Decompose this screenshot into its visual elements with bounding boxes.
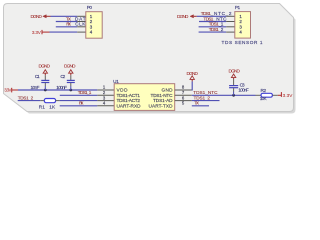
pin P0.1: [77, 15, 86, 17]
svg-text:100nF: 100nF: [238, 88, 249, 93]
connector P0: [86, 12, 102, 39]
wire R2 to 3.3V: [272, 94, 277, 96]
pin P1.1: [226, 15, 235, 17]
wire P0 pin1 to DGND: [51, 15, 78, 17]
svg-text:C1: C1: [35, 74, 40, 79]
svg-text:CLK: CLK: [75, 22, 86, 27]
svg-text:10nF: 10nF: [31, 85, 40, 90]
svg-text:DGND: DGND: [186, 71, 198, 76]
wire TDS1_1 to U1 pin2: [60, 94, 98, 96]
svg-text:DGND: DGND: [64, 64, 76, 69]
svg-text:DAT: DAT: [75, 16, 86, 21]
pin U1.8: [175, 89, 192, 91]
IC U1: [114, 84, 175, 111]
svg-text:_2: _2: [218, 27, 224, 32]
pin U1.3: [97, 100, 114, 102]
junction (C2 / rail): [69, 89, 72, 92]
svg-text:DGND: DGND: [228, 69, 240, 74]
junction (C3 / TDS1_NTC): [232, 94, 235, 97]
wire 3.3V rail to U1 VDD: [18, 89, 97, 91]
svg-text:TDS1_2: TDS1_2: [18, 95, 34, 100]
svg-text:TDS1: TDS1: [203, 16, 213, 21]
junction (C1 / rail): [44, 89, 47, 92]
svg-text:DGND: DGND: [177, 14, 189, 19]
wire P0 pin3: [56, 26, 77, 28]
svg-text:1K: 1K: [49, 105, 56, 110]
pin P1.4: [226, 31, 235, 33]
svg-text:TX: TX: [66, 16, 72, 21]
wire P0 pin4 to 3.3V: [50, 31, 78, 33]
svg-text:3.3V: 3.3V: [4, 88, 11, 93]
wire P1 pin1 to DGND: [197, 15, 226, 17]
svg-text:TDS1-NTC: TDS1-NTC: [151, 93, 174, 98]
svg-text:DGND: DGND: [30, 14, 42, 19]
pin P0.4: [77, 31, 86, 33]
capacitor C1: [44, 75, 46, 80]
wire TX stub: [192, 105, 209, 107]
svg-text:VDD: VDD: [117, 88, 129, 93]
wire P1 pin3: [199, 26, 227, 28]
pin U1.6: [175, 100, 192, 102]
svg-text:TDS1: TDS1: [209, 22, 219, 27]
svg-text:P0: P0: [87, 5, 93, 10]
svg-text:R2: R2: [261, 88, 267, 93]
pin U1.2: [97, 94, 114, 96]
svg-text:TDS1_2: TDS1_2: [194, 95, 211, 100]
svg-text:GND: GND: [162, 88, 174, 93]
pin P0.3: [77, 26, 86, 28]
pin P1.3: [226, 26, 235, 28]
svg-text:TDS1: TDS1: [209, 27, 219, 32]
svg-text:R1: R1: [39, 105, 46, 110]
card sheet: [4, 4, 294, 112]
pin U1.7: [175, 94, 192, 96]
svg-text:TDS1_NTC: TDS1_NTC: [193, 90, 218, 95]
wire TDS1_2 to R1: [18, 100, 41, 102]
resistor R1: [40, 100, 44, 102]
svg-text:C2: C2: [60, 74, 65, 79]
wire P1 pin4: [199, 31, 227, 33]
connector P1: [235, 12, 251, 38]
pin U1.4: [97, 105, 114, 107]
svg-text:DGND: DGND: [39, 64, 51, 69]
capacitor C3: [233, 79, 235, 85]
wire RX to U1 pin4: [60, 105, 98, 107]
card shadow: [6, 6, 296, 114]
wire TDS1_NTC to R2: [192, 94, 256, 96]
wire TDS1_2 stub: [192, 100, 220, 102]
svg-text:TDS1_1: TDS1_1: [78, 90, 92, 95]
pin P1.2: [226, 21, 235, 23]
svg-text:_1: _1: [218, 22, 224, 27]
resistor R2: [256, 94, 262, 96]
svg-text:P1: P1: [235, 5, 241, 10]
svg-text:UART-TXD: UART-TXD: [149, 103, 174, 108]
svg-text:UART-RXD: UART-RXD: [117, 103, 142, 108]
svg-text:U1: U1: [113, 79, 119, 84]
svg-text:3.3V: 3.3V: [283, 93, 294, 98]
wire riser GND to DGND: [191, 81, 193, 90]
pin U1.1: [97, 89, 114, 91]
svg-text:_NTC: _NTC: [212, 16, 227, 21]
svg-text:TDS SENSOR 1: TDS SENSOR 1: [222, 40, 263, 45]
svg-text:100nF: 100nF: [56, 85, 67, 90]
pin P0.2: [77, 21, 86, 23]
svg-text:TDS1-ACT1: TDS1-ACT1: [117, 93, 141, 98]
power port 3.3V (right): [278, 94, 282, 96]
wire R1 to U1 pin3: [56, 100, 60, 102]
svg-text:10K: 10K: [260, 96, 268, 101]
wire P1 pin2: [199, 21, 226, 23]
svg-text:3.3V: 3.3V: [32, 30, 42, 35]
wire P0 pin2: [56, 21, 77, 23]
capacitor C2: [70, 75, 72, 80]
